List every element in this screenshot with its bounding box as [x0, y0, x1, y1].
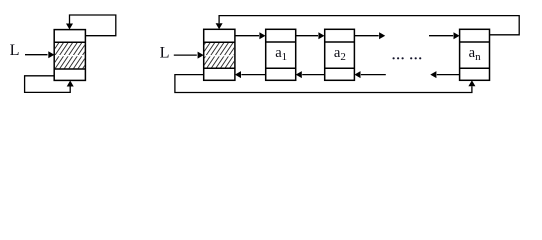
wire: prior arrow a1->head: [235, 71, 266, 78]
node a2 box: [325, 29, 355, 80]
wire: prior arrow dots->a2: [354, 71, 385, 78]
wire: prior wrap head->an (bottom): [175, 75, 472, 93]
wire: next arrow a1->a2: [296, 32, 325, 39]
wire: prior self-loop (left bottom): [25, 76, 71, 93]
head node box (right): [204, 29, 235, 80]
arrowhead down into head top (left): [66, 24, 73, 30]
wire: next wrap an->head (top): [219, 16, 519, 35]
node an box: [460, 29, 490, 80]
head node box (left): [54, 30, 85, 81]
ellipsis dots: [393, 57, 422, 59]
arrowhead down into head top (right): [216, 23, 223, 29]
wire: next self-loop (left top): [70, 15, 116, 36]
svg-text:L: L: [160, 44, 170, 62]
wire: L pointer arrow (right): [174, 52, 204, 59]
wire: prior arrow an->dots: [430, 71, 459, 78]
wire: next arrow head->a1: [235, 32, 266, 39]
wire: prior arrow a2->a1: [296, 71, 325, 78]
node a1 box: [266, 29, 296, 80]
svg-text:L: L: [10, 41, 20, 59]
wire: L pointer arrow (left): [25, 51, 54, 58]
wire: next arrow dots->an: [429, 32, 460, 39]
arrowhead up into head bottom (left): [67, 81, 74, 87]
arrowhead up into an bottom: [468, 80, 475, 86]
wire: next arrow a2->dots: [354, 32, 385, 39]
